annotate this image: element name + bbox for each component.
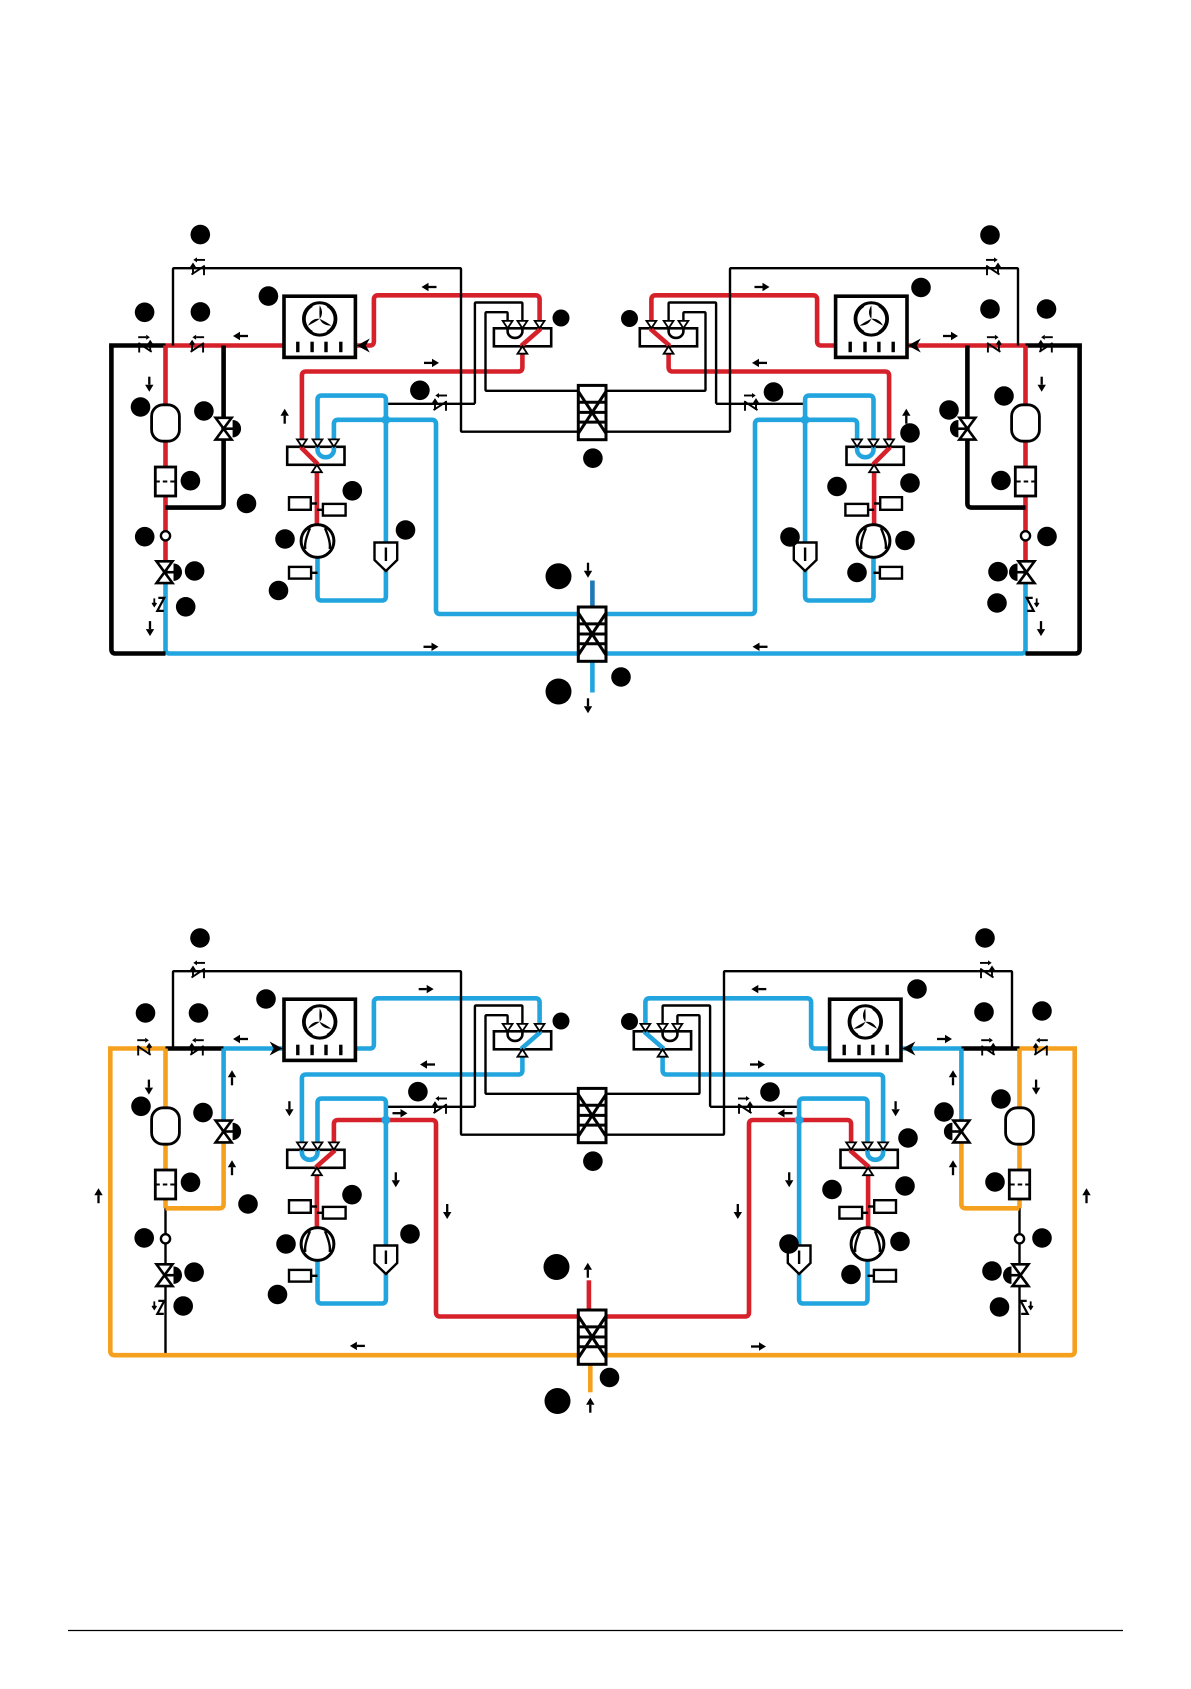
check valve (black link) xyxy=(190,1038,204,1056)
check valve (frame stub) xyxy=(1039,335,1053,353)
check valve (fan feed) xyxy=(190,335,204,353)
pipe: fan feed (column to fan) xyxy=(166,343,285,348)
check valve (frame stub) xyxy=(138,335,152,353)
left half xyxy=(109,257,596,653)
fan inlet arrowhead xyxy=(902,1042,915,1056)
pipe: fan feed (column to fan) xyxy=(907,343,1026,348)
callout dot xyxy=(934,1102,954,1122)
flow arrow xyxy=(424,359,439,367)
pipe: orange outer loop xyxy=(589,1049,1075,1356)
service valve (branch) xyxy=(216,1121,242,1143)
pipe: branch cyan (top) xyxy=(959,1049,964,1132)
service valve (branch) xyxy=(944,1121,970,1143)
pipe: thin line port1 to cascade HX xyxy=(486,1015,597,1094)
pipe: compressor suction U xyxy=(318,557,386,600)
callout dot xyxy=(583,448,603,468)
expansion valve (column) xyxy=(1003,1264,1029,1286)
filter drier xyxy=(1015,467,1035,496)
callout dot xyxy=(827,477,847,497)
callout dot xyxy=(544,1254,570,1280)
compressor xyxy=(851,1228,884,1261)
callout dot xyxy=(991,471,1011,491)
callout dot xyxy=(546,679,572,705)
flow arrow xyxy=(949,1070,957,1085)
lower diagram xyxy=(94,960,1090,1412)
flow arrow xyxy=(785,1172,793,1187)
flow arrow xyxy=(233,1035,248,1043)
callout dot xyxy=(764,382,784,402)
flow arrow xyxy=(943,332,958,340)
pipe: thin line port1 to cascade HX xyxy=(589,1015,700,1094)
flow arrow xyxy=(1082,1188,1090,1203)
expansion valve (column) xyxy=(1009,561,1035,583)
flow arrow xyxy=(145,377,153,392)
pipe: thin tap line xyxy=(710,1106,799,1108)
callout dot xyxy=(131,397,151,417)
flow arrow xyxy=(393,1109,408,1117)
pipe: fan outlet to reversing valve xyxy=(355,998,539,1048)
filter drier xyxy=(155,1170,175,1199)
receiver xyxy=(1012,405,1040,441)
callout dot xyxy=(268,1285,288,1305)
pipe: black frame left xyxy=(111,346,165,654)
callout dot xyxy=(980,299,1000,319)
callout dot xyxy=(553,1013,570,1030)
sight glass xyxy=(161,531,170,540)
pipe: reversing valve outlet run xyxy=(669,346,890,447)
fan inlet arrowhead xyxy=(270,1042,283,1056)
callout dot xyxy=(994,386,1014,406)
compressor xyxy=(301,525,334,558)
callout dot xyxy=(611,667,631,687)
flow arrow xyxy=(94,1188,102,1203)
flow arrow xyxy=(750,1060,765,1068)
4-way reversing valve (lower) xyxy=(287,439,344,472)
callout dot xyxy=(991,1089,1011,1109)
pipe: black frame stub (frame to column) xyxy=(1026,343,1082,348)
pipe: orange supply (outer loop to column) xyxy=(108,1046,166,1051)
callout dot xyxy=(600,1368,620,1388)
junction node xyxy=(382,1116,391,1125)
flow arrow xyxy=(949,1160,957,1175)
junction node xyxy=(382,415,391,424)
restrictor Z xyxy=(152,598,164,611)
callout dot xyxy=(779,1234,799,1254)
flow arrow xyxy=(586,1398,594,1413)
pipe: branch black xyxy=(166,346,224,508)
callout dot xyxy=(621,310,638,327)
sight glass xyxy=(161,1234,170,1243)
callout dot xyxy=(259,286,279,306)
pipe: fan outlet to reversing valve xyxy=(651,295,835,345)
flow arrow xyxy=(753,643,768,651)
callout dot xyxy=(900,473,920,493)
pipe: load inlet stub (orange) xyxy=(588,1363,593,1392)
pipe: compressor discharge xyxy=(315,465,320,525)
pipe: compressor discharge xyxy=(315,1168,320,1228)
service valve (branch) xyxy=(950,418,975,440)
callout dot xyxy=(190,928,210,948)
pipe: fan feed (branch to fan) xyxy=(901,1046,961,1051)
flow arrow xyxy=(902,409,910,424)
4-way reversing valve (upper) xyxy=(634,1024,691,1057)
service valve (branch) xyxy=(216,418,241,440)
pipe: fan outlet to reversing valve xyxy=(645,998,829,1048)
right half (mirrored) xyxy=(589,960,1091,1355)
callout dot xyxy=(134,1228,154,1248)
flow arrow xyxy=(1037,621,1045,636)
fan coil unit xyxy=(284,296,355,357)
callout dot xyxy=(237,494,257,514)
pipe: thin line port2 to tap xyxy=(663,1006,711,1107)
pipe: reversing valve outlet run xyxy=(663,1049,884,1150)
callout dot xyxy=(987,593,1007,613)
flow arrow xyxy=(422,283,437,291)
pipe: liquid column (cyan below valve) xyxy=(595,572,1026,653)
check valve (fan feed) xyxy=(987,335,1001,353)
callout dot xyxy=(136,1003,156,1023)
pressure sensor (right of discharge) xyxy=(317,1207,346,1219)
fan inlet arrowhead xyxy=(908,339,921,353)
fan coil unit xyxy=(830,999,901,1060)
pressure sensor (left of discharge) xyxy=(874,497,902,510)
pipe: liquid column (orange) xyxy=(163,1049,168,1209)
callout dot xyxy=(621,1013,638,1030)
flow arrow xyxy=(751,985,766,993)
callout dot xyxy=(131,1097,151,1117)
flow arrow xyxy=(228,1160,236,1175)
flow arrow xyxy=(419,985,434,993)
pipe: branch cyan (top) xyxy=(221,1049,226,1132)
cascade heat exchanger xyxy=(578,385,606,439)
restrictor Z xyxy=(152,1301,164,1314)
callout dot xyxy=(176,597,196,617)
pipe: branch black xyxy=(967,346,1025,508)
expansion valve (column) xyxy=(157,561,183,583)
flow arrow xyxy=(1038,377,1046,392)
callout dot xyxy=(546,563,572,589)
flow arrow xyxy=(755,283,770,291)
4-way reversing valve (lower) xyxy=(841,1142,898,1175)
pipe: separator feed xyxy=(803,543,808,572)
compressor xyxy=(857,525,890,558)
restrictor Z xyxy=(1021,1301,1033,1314)
flow arrow xyxy=(392,1172,400,1187)
callout dot xyxy=(553,310,570,327)
callout dot xyxy=(276,1234,296,1254)
4-way reversing valve (upper) xyxy=(494,321,551,354)
restrictor Z xyxy=(1027,598,1039,611)
flow arrow xyxy=(350,1342,365,1350)
callout dot xyxy=(1037,299,1057,319)
4-way reversing valve (upper) xyxy=(640,321,697,354)
pipe: suction line port2 to separator xyxy=(799,1099,867,1246)
right half (mirrored) xyxy=(595,257,1082,653)
pipe: black frame left xyxy=(1026,346,1080,654)
callout dot xyxy=(256,989,276,1009)
flow arrow xyxy=(281,409,289,424)
cascade heat exchanger xyxy=(578,1088,606,1142)
callout dot xyxy=(974,1002,994,1022)
callout dot xyxy=(907,979,927,999)
pressure sensor (right of discharge) xyxy=(839,1207,868,1219)
callout dot xyxy=(980,225,1000,245)
pipe: black link (column to branch) xyxy=(961,1046,1019,1051)
fan coil unit xyxy=(284,999,355,1060)
callout dot xyxy=(985,1172,1005,1192)
pipe: thin line port2 to tap xyxy=(475,1006,523,1107)
sight glass xyxy=(1015,1234,1024,1243)
pipe: suction line port2 to separator xyxy=(318,1099,386,1246)
callout dot xyxy=(1032,1228,1052,1248)
check valve (tap line) xyxy=(738,1096,752,1114)
callout dot xyxy=(135,527,155,547)
flow arrow xyxy=(937,1035,952,1043)
pipe: suction line port2 to separator xyxy=(805,396,873,543)
check valve (tap line) xyxy=(433,1096,447,1114)
pipe: thin control line outer frame xyxy=(589,971,1012,1134)
callout dot xyxy=(193,1103,213,1123)
pressure sensor (right of discharge) xyxy=(845,504,874,516)
callout dot xyxy=(900,423,920,443)
flow arrow xyxy=(420,1060,435,1068)
flow arrow xyxy=(233,332,248,340)
junction node xyxy=(795,1116,804,1125)
suction accumulator xyxy=(375,1246,398,1275)
callout dot xyxy=(181,1173,201,1193)
callout dot xyxy=(181,471,201,491)
pipe: branch orange (bottom) xyxy=(166,1132,224,1209)
pipe: fan outlet to reversing valve xyxy=(355,295,539,345)
callout dot xyxy=(911,278,931,298)
pipe: liquid column (orange) xyxy=(1017,1049,1022,1209)
callout dot xyxy=(343,481,363,501)
left half xyxy=(94,960,596,1355)
pipe: compressor suction U xyxy=(805,557,873,600)
callout dot xyxy=(583,1151,603,1171)
callout dot xyxy=(400,1224,420,1244)
pipe: fan feed (branch to fan) xyxy=(224,1046,284,1051)
pipe: thin tap line xyxy=(716,403,805,405)
callout dot xyxy=(238,1194,258,1214)
callout dot xyxy=(342,1185,362,1205)
receiver xyxy=(152,405,180,441)
pipe: thin control line outer frame xyxy=(595,268,1018,432)
pressure sensor (suction) xyxy=(289,567,318,579)
callout dot xyxy=(410,381,430,401)
expansion valve (column) xyxy=(157,1264,183,1286)
callout dot xyxy=(408,1082,428,1102)
flow arrow xyxy=(584,563,592,578)
pipe: thin control line outer frame xyxy=(173,971,596,1134)
pipe: separator feed xyxy=(384,543,389,572)
footer rule xyxy=(68,1630,1123,1632)
check valve (tap line) xyxy=(433,393,447,411)
pipe: compressor discharge xyxy=(872,465,877,525)
4-way reversing valve (upper) xyxy=(494,1024,551,1057)
callout dot xyxy=(1032,1001,1052,1021)
bottom heat exchanger xyxy=(578,607,606,661)
suction accumulator xyxy=(375,543,398,572)
pipe: source outlet stub (cyan) xyxy=(590,660,595,693)
sight glass xyxy=(1021,531,1030,540)
receiver xyxy=(1006,1108,1034,1144)
pressure sensor (left of discharge) xyxy=(289,497,317,510)
pipe: black link (column to branch) xyxy=(166,1046,224,1051)
check valve (thin frame) xyxy=(191,960,205,978)
callout dot xyxy=(269,581,289,601)
callout dot xyxy=(189,1003,209,1023)
pipe: branch orange (bottom) xyxy=(961,1132,1019,1209)
upper diagram xyxy=(109,257,1082,713)
junction node xyxy=(801,415,810,424)
callout dot xyxy=(184,1262,204,1282)
pipe: compressor suction U xyxy=(318,1260,386,1303)
callout dot xyxy=(898,1128,918,1148)
flow arrow xyxy=(891,1101,899,1116)
pipe: hot gas line port3 to bottom HX xyxy=(334,1120,596,1317)
callout dot xyxy=(275,529,295,549)
flow arrow xyxy=(584,698,592,713)
pipe: liquid column (red) xyxy=(1023,346,1028,573)
flow arrow xyxy=(734,1204,742,1219)
callout dot xyxy=(975,928,995,948)
callout dot xyxy=(173,1296,193,1316)
pipe: thin tap line xyxy=(386,403,475,405)
flow arrow xyxy=(145,1080,153,1095)
pipe: thin line port1 to cascade HX xyxy=(486,312,597,391)
bottom heat exchanger xyxy=(578,1310,606,1364)
filter drier xyxy=(155,467,175,496)
pipe: reversing valve outlet run xyxy=(302,346,523,447)
pipe: liquid column (red) xyxy=(163,346,168,573)
callout dot xyxy=(895,531,915,551)
receiver xyxy=(152,1108,180,1144)
filter drier xyxy=(1009,1170,1029,1199)
flow arrow xyxy=(584,1263,592,1278)
callout dot xyxy=(895,1176,915,1196)
check valve (thin frame) xyxy=(980,960,994,978)
pipe: liquid column (black below junction) xyxy=(1018,1208,1020,1355)
pipe: reversing valve outlet run xyxy=(302,1049,523,1150)
flow arrow xyxy=(443,1204,451,1219)
pipe: thin line port1 to cascade HX xyxy=(595,312,706,391)
pipe: compressor discharge xyxy=(866,1168,871,1228)
flow arrow xyxy=(778,1109,793,1117)
flow arrow xyxy=(146,621,154,636)
check valve (black link) xyxy=(981,1038,995,1056)
flow arrow xyxy=(752,359,767,367)
pressure sensor (suction) xyxy=(868,1270,897,1282)
callout dot xyxy=(982,1261,1002,1281)
callout dot xyxy=(822,1180,842,1200)
fan coil unit xyxy=(836,296,907,357)
pipe: black frame stub (frame to column) xyxy=(109,343,165,348)
check valve (orange supply) xyxy=(1034,1038,1048,1056)
pipe: thin control line outer frame xyxy=(173,268,596,432)
pipe: thin line port2 to tap xyxy=(669,303,717,404)
callout dot xyxy=(191,225,211,245)
pipe: thin tap line xyxy=(386,1106,475,1108)
pressure sensor (right of discharge) xyxy=(317,504,346,516)
callout dot xyxy=(1037,527,1057,547)
pipe: liquid column (cyan below valve) xyxy=(166,572,597,653)
pipe: orange supply (outer loop to column) xyxy=(1020,1046,1078,1051)
callout dot xyxy=(760,1082,780,1102)
pipe: separator feed xyxy=(797,1246,802,1275)
suction accumulator xyxy=(794,543,817,572)
flow arrow xyxy=(285,1101,293,1116)
check valve (thin frame) xyxy=(986,257,1000,275)
callout dot xyxy=(988,562,1008,582)
check valve (thin frame) xyxy=(191,257,205,275)
pressure sensor (left of discharge) xyxy=(289,1200,317,1213)
check valve (orange supply) xyxy=(137,1038,151,1056)
flow arrow xyxy=(1032,1080,1040,1095)
callout dot xyxy=(396,520,416,540)
pressure sensor (suction) xyxy=(289,1270,318,1282)
compressor xyxy=(301,1228,334,1261)
pipe: suction line port3 to bottom HX xyxy=(595,420,857,614)
pressure sensor (left of discharge) xyxy=(868,1200,896,1213)
check valve (tap line) xyxy=(744,393,758,411)
callout dot xyxy=(191,302,211,322)
pressure sensor (suction) xyxy=(874,567,903,579)
pipe: hot gas line port3 to bottom HX xyxy=(589,1120,851,1317)
4-way reversing valve (lower) xyxy=(847,439,904,472)
callout dot xyxy=(841,1265,861,1285)
callout dot xyxy=(847,563,867,583)
suction accumulator xyxy=(788,1246,811,1275)
flow arrow xyxy=(424,643,439,651)
callout dot xyxy=(135,303,155,323)
callout dot xyxy=(780,527,800,547)
pipe: liquid column (black below junction) xyxy=(164,1208,166,1355)
pipe: separator feed xyxy=(384,1246,389,1275)
callout dot xyxy=(990,1297,1010,1317)
4-way reversing valve (lower) xyxy=(287,1142,344,1175)
callout dot xyxy=(939,400,959,420)
fan inlet arrowhead xyxy=(357,339,370,353)
pipe: load outlet stub (red) xyxy=(587,1280,592,1312)
callout dot xyxy=(194,401,214,421)
callout dot xyxy=(890,1232,910,1252)
callout dot xyxy=(185,561,205,581)
pipe: source inlet stub (blue) xyxy=(590,581,595,610)
pipe: thin line port2 to tap xyxy=(475,303,523,404)
flow arrow xyxy=(751,1342,766,1350)
callout dot xyxy=(545,1388,571,1414)
flow arrow xyxy=(228,1070,236,1085)
pipe: compressor suction U xyxy=(799,1260,867,1303)
pipe: suction line port2 to separator xyxy=(318,396,386,543)
pipe: suction line port3 to bottom HX xyxy=(334,420,596,614)
pipe: orange outer loop xyxy=(110,1049,596,1356)
